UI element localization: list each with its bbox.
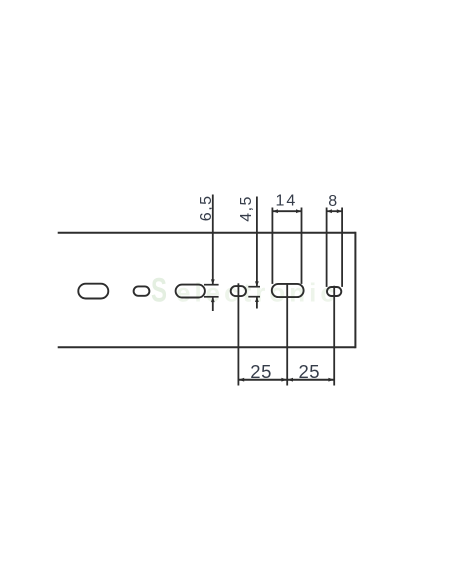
svg-text:8: 8 [328, 193, 337, 210]
dimension 8 left extension line [326, 208, 328, 287]
svg-text:25: 25 [250, 361, 272, 382]
bottom dimension line [238, 379, 334, 381]
oval hole 4 [231, 286, 246, 296]
slot hole 1 [78, 284, 108, 299]
bottom dimension left arrow [239, 378, 245, 382]
dimension 4,5 bottom tick [248, 296, 260, 298]
svg-text:25: 25 [299, 361, 321, 382]
svg-text:4,5: 4,5 [238, 195, 255, 222]
dimension 4,5 arrow down [255, 281, 259, 286]
slot hole 3 [176, 285, 205, 298]
rail right edge [354, 232, 356, 349]
dimension 4,5 arrow up [255, 297, 259, 302]
svg-text:S: S [151, 272, 167, 310]
oval hole 2 [134, 286, 150, 295]
watermark [151, 272, 339, 310]
slot hole 5 [272, 284, 304, 297]
dimension 14 right arrow [296, 209, 301, 213]
bottom dimension middle arrows [281, 378, 287, 382]
dimension 14 line [272, 210, 301, 212]
dimension 6,5 bottom tick [204, 296, 219, 298]
dimension 8 right extension line [341, 208, 343, 287]
dimension 14 right extension line [301, 208, 303, 284]
dimension 8 right arrow [337, 209, 342, 213]
dimension 6,5 lower leader [212, 297, 214, 311]
bottom dimension right arrow [328, 378, 334, 382]
center line through hole 4 [237, 283, 239, 385]
oval hole 6 [327, 287, 341, 296]
center line through hole 5 [286, 284, 288, 386]
dimension 6,5 leader line [212, 195, 214, 285]
dimension 6,5 arrow up [211, 297, 215, 302]
dimension 14 left arrow [273, 209, 278, 213]
dimension 6,5 top tick [204, 284, 219, 286]
dimension 4,5 top tick [248, 286, 260, 288]
dimension 4,5 lower leader [256, 297, 258, 308]
dimension 8 line [327, 210, 343, 212]
rail top edge [58, 232, 356, 234]
center line through hole 6 [333, 286, 335, 386]
dimension 8 left arrow [327, 209, 332, 213]
rail bottom edge [58, 346, 356, 348]
dimension 6,5 arrow down [211, 279, 215, 284]
dimension 4,5 leader line [256, 197, 258, 287]
dimension 14 left extension line [271, 208, 273, 284]
svg-text:14: 14 [276, 193, 298, 210]
